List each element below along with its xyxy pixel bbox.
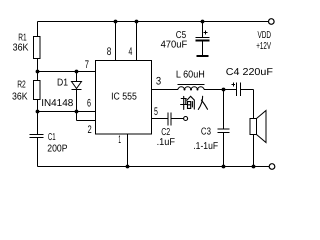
node junction dots [36, 20, 256, 169]
wire pin 2 vertical tie [76, 112, 78, 121]
svg-text:VDD: VDD [258, 30, 272, 41]
wire pin 4 [136, 22, 138, 61]
wire C1 to ground rail [37, 138, 39, 167]
wire C2 to input terminal [171, 118, 184, 120]
wire C5 to ground symbol [202, 41, 204, 56]
wire pin 3 to inductor [152, 89, 179, 91]
wire R1 to pin7 node [37, 59, 39, 81]
node R2/pin6 [36, 110, 40, 114]
svg-text:IN4148: IN4148 [41, 98, 74, 109]
capacitor C3 [218, 129, 230, 133]
svg-text:IC 555: IC 555 [111, 91, 137, 102]
svg-text:2: 2 [88, 124, 92, 136]
wire top VDD rail [38, 21, 269, 23]
diode D1 [72, 82, 82, 90]
svg-text:4: 4 [129, 46, 133, 58]
wire pin 2 stub [77, 120, 96, 122]
svg-text:36K: 36K [13, 43, 29, 54]
wire pin 6 line [38, 111, 96, 113]
svg-text:+12V: +12V [256, 41, 271, 52]
label 输入 (input) [181, 96, 208, 109]
svg-text:470uF: 470uF [161, 40, 188, 51]
svg-text:6: 6 [87, 98, 91, 110]
capacitor C1 [30, 135, 44, 138]
node D1 anode/pin7 [75, 70, 79, 74]
wire bottom ground rail [38, 166, 270, 168]
svg-text:D1: D1 [57, 78, 68, 89]
node C3/ground rail [222, 165, 226, 169]
svg-text:.1-1uF: .1-1uF [193, 141, 218, 152]
wire D1 anode [76, 72, 78, 82]
wire pin 1 [127, 134, 129, 167]
wire inductor to C4 [204, 89, 236, 91]
node pin8/rail [114, 20, 118, 24]
terminal output (bottom right) [269, 164, 275, 170]
svg-text:3: 3 [156, 76, 161, 88]
node pin4/rail [135, 20, 139, 24]
ground (below C5) [197, 55, 209, 57]
node C5/rail [201, 20, 205, 24]
resistor R1 [34, 37, 41, 59]
svg-text:8: 8 [107, 46, 112, 58]
wire pin 7 line [38, 71, 96, 73]
IC U1 : 555 timer box [96, 61, 152, 135]
wire left column top (rail to R1) [37, 22, 39, 37]
svg-text:200P: 200P [47, 143, 67, 154]
capacitor C5 [196, 31, 210, 41]
wire pin 5 to C2 [152, 118, 169, 120]
svg-text:36K: 36K [12, 91, 28, 102]
wire R2 to pin6 node and C1 [37, 100, 39, 135]
node pin1/ground rail [126, 165, 130, 169]
入 char [198, 96, 202, 109]
terminal VDD [269, 19, 275, 25]
svg-text:C3: C3 [201, 126, 211, 137]
speaker LS1 [250, 111, 266, 143]
capacitor C4 [232, 83, 241, 97]
node D1 cathode/pin6/pin2 [75, 110, 79, 114]
node L/C3/C4 [222, 88, 226, 92]
svg-text:.1uF: .1uF [157, 137, 175, 148]
node speaker/ground rail [252, 165, 256, 169]
wire C3 bottom [223, 133, 225, 167]
svg-text:C4 220uF: C4 220uF [226, 67, 273, 78]
svg-text:7: 7 [85, 59, 89, 71]
wire D1 cathode [76, 90, 78, 112]
terminal input (open circle) [184, 117, 188, 121]
wire pin 8 [115, 22, 117, 61]
resistor R2 [34, 81, 41, 100]
svg-text:L 60uH: L 60uH [176, 70, 205, 81]
输 char [181, 98, 186, 100]
svg-text:1: 1 [118, 134, 121, 146]
wire C4 to speaker top [241, 89, 254, 91]
node R1/R2/pin7 [36, 70, 40, 74]
svg-text:5: 5 [154, 106, 158, 118]
svg-text:R2: R2 [17, 80, 26, 91]
svg-text:C1: C1 [48, 132, 56, 143]
wire C5 top [202, 22, 204, 38]
wire speaker to ground rail [253, 135, 255, 167]
capacitor C2 [168, 113, 171, 126]
wire C3 top [223, 90, 225, 130]
inductor L 60uH [178, 85, 205, 91]
